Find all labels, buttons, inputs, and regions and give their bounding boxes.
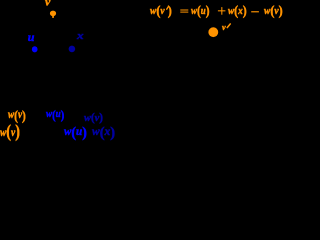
label u: [28, 31, 35, 43]
node u (blue vertex, lower-left of left graph): [32, 46, 38, 52]
label w(u) row1 blue: [46, 109, 64, 120]
node v (orange vertex, top of left graph): [50, 11, 56, 17]
label w(v) row1 orange: [8, 110, 26, 121]
equals sign of formula: [180, 10, 188, 11]
label w(v) row2 orange: [0, 127, 20, 139]
label v: [45, 0, 50, 7]
prime mark inside formula token w(v'): [167, 7, 169, 9]
label w(x) row2 navy: [92, 127, 115, 139]
node v' (orange merged vertex, right side): [208, 27, 218, 37]
plus sign of formula: [218, 10, 226, 11]
label x: [77, 31, 84, 42]
prime mark of label v': [227, 24, 230, 28]
formula token w(u): [191, 6, 210, 17]
label v': [222, 24, 226, 32]
formula token w(v'): [150, 6, 172, 17]
label w(u) row2 blue: [64, 127, 87, 139]
formula token w(x): [228, 6, 247, 17]
node x (navy vertex, lower-right of left graph): [69, 46, 76, 53]
label w(v) row1 navy: [84, 113, 103, 124]
formula token w(v): [264, 6, 283, 17]
minus sign of formula: [251, 11, 259, 12]
